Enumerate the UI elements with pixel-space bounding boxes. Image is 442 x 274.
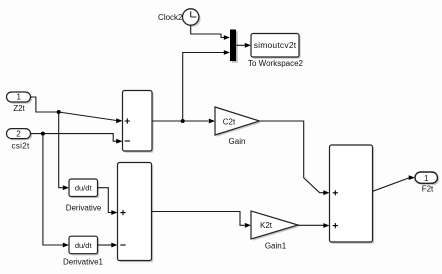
wire Add to outport F2t	[373, 175, 416, 191]
gain C2t (Gain)	[215, 107, 261, 137]
block To Workspace2 (simoutv2t)	[251, 34, 301, 59]
mux Mux2 (black bar)	[230, 30, 238, 63]
svg-text:du/dt: du/dt	[75, 241, 93, 250]
sum Sum1 (lower)	[118, 163, 154, 263]
svg-text:1: 1	[424, 174, 429, 183]
inport 1 Z2t	[7, 92, 33, 104]
svg-text:Derivative: Derivative	[66, 204, 102, 213]
wire Derivative to Sum1 plus input	[98, 188, 118, 215]
junction on Sum output	[181, 119, 185, 123]
junction on Z2t wire	[57, 110, 61, 114]
sum Add (right)	[330, 145, 375, 244]
wire Z2t to Sum plus input	[31, 97, 123, 123]
wire junction to Derivative1	[43, 134, 69, 248]
svg-text:Z2t: Z2t	[13, 104, 25, 113]
svg-text:simoutcv2t: simoutcv2t	[254, 40, 297, 50]
wire junction to Derivative	[59, 112, 69, 190]
wire Derivative1 to Sum1 minus input	[98, 243, 118, 248]
derivative Derivative (du/dt)	[69, 179, 99, 198]
svg-text:K2t: K2t	[260, 221, 273, 230]
wire Clock2 to Mux2 top input	[191, 25, 230, 40]
wire junction up to Mux2 lower input	[183, 50, 230, 121]
svg-text:2: 2	[16, 130, 21, 139]
wire Mux2 to To Workspace2	[236, 43, 251, 48]
wire Gain to Add first plus input	[260, 121, 330, 195]
svg-text:Gain: Gain	[229, 137, 246, 146]
svg-text:To Workspace2: To Workspace2	[248, 59, 304, 68]
wire Sum1 to Gain1 K2t	[152, 212, 252, 228]
junction on csi2t wire	[41, 132, 45, 136]
clock Clock2	[183, 9, 201, 27]
svg-text:F2t: F2t	[422, 185, 434, 194]
gain K2t (Gain1)	[251, 211, 300, 241]
wire Gain1 to Add second plus input	[298, 223, 330, 228]
outport 1 F2t	[415, 172, 439, 185]
svg-text:csi2t: csi2t	[12, 142, 30, 151]
svg-text:C2t: C2t	[223, 118, 236, 127]
sum Sum (upper)	[123, 91, 154, 153]
svg-text:Derivative1: Derivative1	[63, 258, 104, 267]
wire Sum to Gain C2t	[152, 119, 215, 124]
svg-text:Gain1: Gain1	[265, 242, 287, 251]
wire csi2t to Sum minus input	[31, 134, 123, 144]
svg-text:Clock2: Clock2	[158, 13, 183, 22]
derivative Derivative1 (du/dt)	[69, 236, 99, 255]
svg-text:1: 1	[16, 92, 21, 101]
inport 2 csi2t	[7, 129, 33, 141]
svg-text:du/dt: du/dt	[75, 184, 93, 193]
